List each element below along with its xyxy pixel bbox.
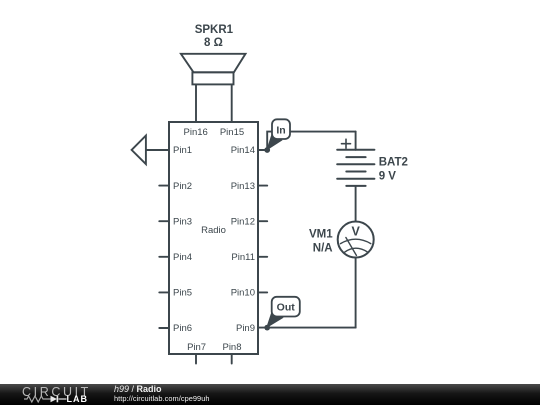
svg-text:In: In <box>276 124 285 136</box>
svg-text:Pin4: Pin4 <box>173 252 192 263</box>
speaker SPKR1 magnet body <box>192 72 233 84</box>
Out flag tail <box>266 308 284 328</box>
svg-text:VM1: VM1 <box>309 228 333 240</box>
pin stub Pin13 <box>258 185 267 187</box>
battery BAT2 plate long 3 <box>337 178 374 180</box>
url <box>114 394 210 403</box>
battery BAT2 plate long 2 <box>337 163 374 165</box>
voltmeter scale arc lower <box>345 248 368 252</box>
battery plus sign <box>342 143 351 145</box>
wire voltmeter to Out net <box>355 258 357 328</box>
wire battery to voltmeter <box>355 186 357 222</box>
wire antenna to Pin1 <box>146 149 169 151</box>
svg-text:Radio: Radio <box>201 225 226 236</box>
svg-text:Pin6: Pin6 <box>173 323 192 334</box>
speaker SPKR1 horn <box>181 54 246 73</box>
svg-text:BAT2: BAT2 <box>379 156 408 168</box>
pin stub Pin5 <box>159 291 169 293</box>
pin stub Pin10 <box>258 291 267 293</box>
svg-text:Pin14: Pin14 <box>231 145 255 156</box>
junction dot at Pin9 <box>264 325 270 331</box>
svg-text:Pin9: Pin9 <box>236 323 255 334</box>
pin stub Pin2 <box>159 185 169 187</box>
svg-text:8 Ω: 8 Ω <box>204 37 223 49</box>
pin stub Pin6 <box>159 327 169 329</box>
battery BAT2 plate short 2 <box>346 171 365 173</box>
breadcrumb h99 / Radio <box>114 384 162 394</box>
speaker terminal wire right (to Pin15) <box>231 84 233 122</box>
battery BAT2 plate long 1 <box>337 149 374 151</box>
voltmeter VM1 circle <box>338 222 374 258</box>
logo word LAB <box>67 394 89 404</box>
voltmeter scale arc upper <box>341 239 371 243</box>
Out flag box <box>272 297 300 317</box>
svg-text:Pin1: Pin1 <box>173 145 192 156</box>
svg-text:Pin11: Pin11 <box>231 252 255 263</box>
footer bar <box>0 384 540 405</box>
svg-text:9 V: 9 V <box>379 170 397 182</box>
pin stub Pin3 <box>159 220 169 222</box>
battery BAT2 plate short 1 <box>346 156 365 158</box>
battery BAT2 plate short 3 <box>346 185 365 187</box>
wire In net: flag to battery + <box>267 132 290 150</box>
pin stub Pin12 <box>258 220 267 222</box>
pin stub Pin9 <box>258 327 267 329</box>
svg-text:Pin2: Pin2 <box>173 181 192 192</box>
pin stub Pin11 <box>258 256 267 258</box>
pin stub Pin8 <box>231 354 233 364</box>
svg-text:Pin16: Pin16 <box>184 127 208 138</box>
pin stub Pin4 <box>159 256 169 258</box>
svg-text:Pin8: Pin8 <box>222 342 241 353</box>
diode triangle <box>51 395 58 402</box>
svg-text:Pin5: Pin5 <box>173 288 192 299</box>
voltmeter needle <box>346 238 357 256</box>
svg-text:Out: Out <box>277 302 296 314</box>
svg-text:SPKR1: SPKR1 <box>195 24 234 36</box>
speaker terminal wire left (to Pin16) <box>195 84 197 122</box>
svg-text:Pin13: Pin13 <box>231 181 255 192</box>
svg-text:Pin3: Pin3 <box>173 216 192 227</box>
svg-text:V: V <box>352 224 361 238</box>
pin stub Pin14 <box>258 149 267 151</box>
IC U? box "Radio" <box>169 122 258 354</box>
svg-text:N/A: N/A <box>313 242 333 254</box>
svg-text:Pin10: Pin10 <box>231 288 255 299</box>
svg-text:Pin12: Pin12 <box>231 216 255 227</box>
diode bar <box>56 395 58 402</box>
In flag box <box>272 119 290 139</box>
svg-text:Pin7: Pin7 <box>187 342 206 353</box>
logo resistor+diode squiggle <box>23 394 73 406</box>
pin stub Pin7 <box>195 354 197 364</box>
antenna symbol <box>132 136 146 165</box>
junction dot at Pin14 <box>264 147 270 153</box>
In flag tail <box>266 131 282 151</box>
logo word CIRCUIT <box>22 385 91 399</box>
svg-text:Pin15: Pin15 <box>220 127 244 138</box>
